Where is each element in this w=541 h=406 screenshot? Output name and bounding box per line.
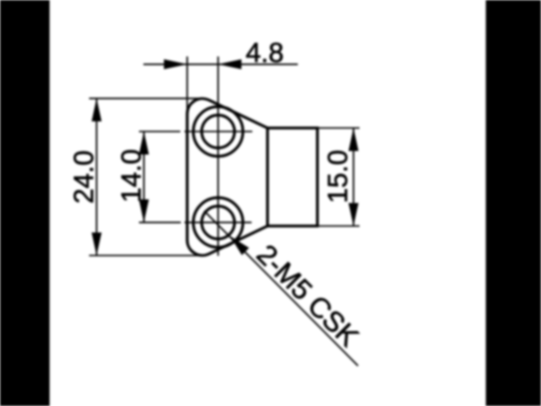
svg-text:2-M5 CSK: 2-M5 CSK	[251, 238, 366, 353]
svg-text:4.8: 4.8	[246, 37, 284, 68]
svg-text:14.0: 14.0	[115, 149, 146, 203]
svg-text:15.0: 15.0	[322, 150, 353, 204]
svg-text:24.0: 24.0	[68, 150, 99, 204]
